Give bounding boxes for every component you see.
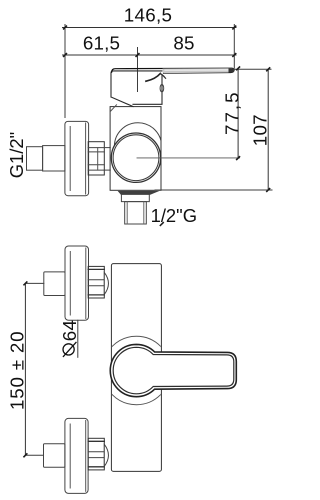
bottom nut facet 4 [88, 466, 104, 468]
svg-text:146,5: 146,5 [124, 5, 173, 26]
phi64 leader line [77, 320, 79, 357]
body chamfer top-left [110, 105, 116, 112]
top flange highlight right [85, 248, 87, 319]
top nut facet 1 [88, 268, 104, 270]
tick 85 right [233, 54, 236, 57]
pipe thread line left [126, 202, 128, 224]
tick 146,5 left [64, 26, 67, 29]
tick 77,5 top [237, 67, 240, 70]
lever neck curve 1 [146, 74, 160, 82]
wall flange (side view disc) [65, 121, 89, 195]
dimension line 77,5 [237, 68, 239, 158]
nut facet line 1 [88, 147, 104, 149]
bottom hex nut [88, 438, 104, 470]
tick 107 top [267, 68, 270, 71]
flange highlight line left [69, 127, 71, 191]
top inlet: extension stub [25, 282, 43, 284]
top inlet pipe nipple [44, 272, 65, 296]
svg-text:G1/2": G1/2" [6, 132, 27, 178]
extension line right (lever tip) [233, 25, 235, 69]
bottom nut facet 1 [88, 440, 104, 442]
dimension line 146,5 [63, 27, 237, 29]
nut inner vertical [97, 148, 99, 171]
tick 146,5 right [233, 26, 236, 29]
blade body shading [163, 68, 235, 73]
hex nut [88, 142, 104, 175]
top nut facet 4 [88, 294, 104, 296]
pipe thread line right [143, 202, 145, 224]
flange highlight line right [85, 123, 87, 194]
adapter stub bottom [104, 169, 110, 171]
extension line left (wall plane) [64, 25, 66, 118]
pipe bottom leader underline [160, 223, 163, 226]
eccentric union (left larger rect) [43, 146, 65, 171]
bottom inlet pipe nipple [44, 444, 65, 467]
nut facet line 4 [88, 169, 104, 171]
extension line middle (valve axis) [137, 48, 139, 92]
tick 107 bottom [267, 189, 270, 192]
center line to right [137, 157, 240, 159]
inlet pipe end (left small rect) [27, 147, 43, 171]
blade bottom shade [166, 70, 231, 73]
top dome cap [104, 272, 108, 294]
lever neck curve 2 [160, 74, 165, 79]
svg-text:85: 85 [173, 32, 194, 53]
extension line body bottom to right [155, 189, 272, 191]
blade tip dark [229, 68, 235, 73]
dimension line 61,5 / 85 [63, 54, 237, 56]
tick 61,5 left [64, 54, 67, 57]
body (side view) [110, 107, 161, 191]
head cap (cartridge cover) [111, 71, 162, 107]
tick 150 bottom [24, 454, 27, 457]
outlet collar dark trapezoid [118, 191, 160, 195]
svg-text:150 ± 20: 150 ± 20 [7, 331, 28, 410]
set screw boss [160, 84, 164, 92]
bottom flange highlight right [85, 421, 87, 492]
extension line lever top to right [235, 68, 272, 70]
bottom inlet: extension stub [25, 454, 43, 456]
nut facet line 2 [88, 151, 104, 153]
bottom dome cap [104, 444, 108, 466]
nut facet line 3 [88, 164, 104, 166]
top nut facet 2 [88, 279, 104, 281]
bottom nut facet 3 [88, 457, 104, 459]
front ring inner [113, 135, 159, 181]
top hex nut [88, 266, 104, 298]
lever silhouette (cap + blade) [110, 344, 236, 396]
bottom flange highlight left [69, 424, 71, 488]
blade highlight [165, 69, 229, 71]
front ring outer (covers back circle) [111, 133, 160, 182]
lever inner outline [113, 347, 234, 394]
tick 150 top [24, 282, 27, 285]
tick 77,5 bottom [237, 157, 240, 160]
svg-text:64: 64 [59, 320, 80, 341]
svg-text:1/2"G: 1/2"G [151, 205, 197, 226]
tick middle [136, 54, 139, 57]
body front [111, 264, 161, 472]
bottom flange [65, 418, 88, 493]
label phi64: diameter symbol [63, 344, 74, 355]
dimension line 107 [267, 69, 269, 190]
bottom nut facet 2 [88, 451, 104, 453]
top flange [65, 246, 89, 320]
adapter stub top [104, 147, 110, 149]
top flange highlight left [69, 252, 71, 316]
dimension line 150 +/- 20 [24, 283, 26, 455]
svg-text:107: 107 [249, 114, 270, 146]
lever blade (side view) [112, 68, 234, 73]
outlet pipe [125, 202, 147, 224]
svg-text:61,5: 61,5 [83, 32, 120, 53]
svg-text:77,5: 77,5 [221, 90, 242, 135]
top nut facet 3 [88, 285, 104, 287]
outlet collar [121, 195, 149, 202]
